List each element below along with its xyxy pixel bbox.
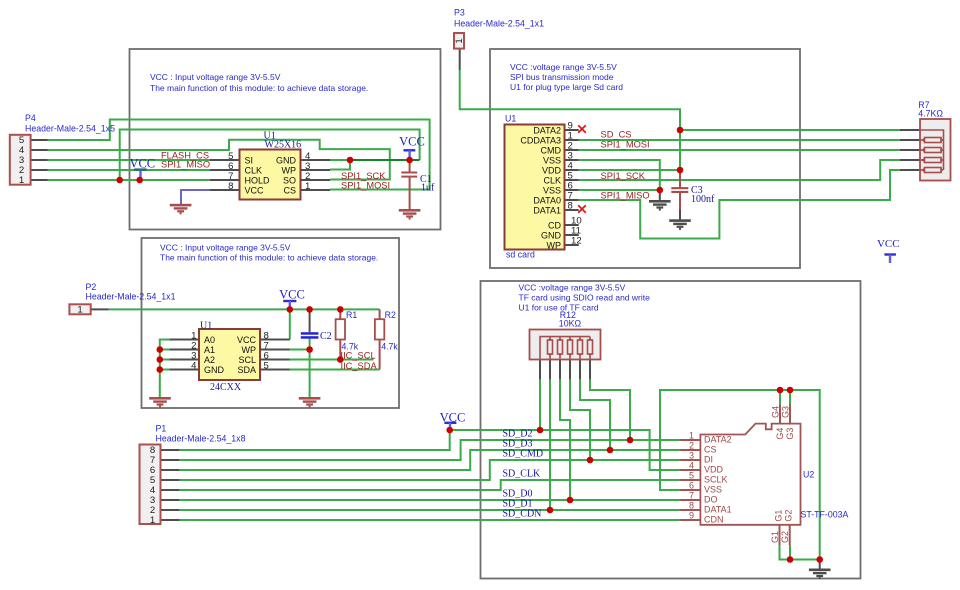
svg-text:1uf: 1uf [421,183,435,194]
svg-text:G3: G3 [781,406,791,418]
svg-text:SCLK: SCLK [704,475,728,485]
svg-text:7: 7 [689,491,694,501]
svg-text:1: 1 [150,515,155,526]
svg-text:CLK: CLK [543,175,561,185]
svg-text:VCC: VCC [237,335,257,345]
svg-text:VCC : Input voltage range 3V-5: VCC : Input voltage range 3V-5.5V [150,72,281,82]
svg-text:The main function of this modu: The main function of this module: to ach… [150,83,368,93]
svg-text:A1: A1 [204,345,215,355]
svg-text:10KΩ: 10KΩ [559,319,582,329]
svg-text:VCC: VCC [245,185,265,195]
svg-text:The main function of this modu: The main function of this module: to ach… [160,253,378,263]
svg-text:1: 1 [77,305,82,316]
svg-text:WP: WP [282,165,297,175]
svg-text:G2: G2 [784,510,794,522]
svg-text:VCC: VCC [877,238,900,250]
svg-text:SPI bus transmission mode: SPI bus transmission mode [510,72,614,82]
svg-text:CDN: CDN [704,515,724,525]
svg-text:R1: R1 [346,310,357,320]
svg-text:G1: G1 [770,531,780,543]
svg-text:CMD: CMD [541,145,562,155]
svg-text:GND: GND [276,155,297,165]
svg-text:24CXX: 24CXX [210,382,242,393]
svg-text:SPI1_MOSI: SPI1_MOSI [601,140,650,150]
svg-text:G2: G2 [780,531,790,543]
svg-text:SD_CDN: SD_CDN [503,508,542,519]
svg-text:G4: G4 [771,406,781,418]
svg-text:DI: DI [704,455,713,465]
svg-text:DATA0: DATA0 [533,195,561,205]
svg-text:G4: G4 [775,428,785,440]
svg-text:P1: P1 [156,424,167,434]
svg-text:WP: WP [242,345,257,355]
svg-text:A2: A2 [204,355,215,365]
svg-text:1: 1 [305,181,310,192]
svg-text:G3: G3 [785,428,795,440]
svg-text:VDD: VDD [704,465,724,475]
svg-text:VSS: VSS [704,485,722,495]
svg-text:P4: P4 [25,113,36,123]
svg-text:VCC :voltage range 3V-5.5V: VCC :voltage range 3V-5.5V [519,283,626,293]
svg-text:DATA1: DATA1 [704,505,732,515]
svg-text:WP: WP [547,240,562,250]
svg-text:U2: U2 [803,470,814,480]
svg-text:4.7k: 4.7k [381,342,398,352]
svg-text:6: 6 [689,481,694,491]
svg-text:8: 8 [689,501,694,511]
svg-text:1: 1 [689,431,694,441]
svg-text:W25X16: W25X16 [265,140,302,151]
svg-text:VCC: VCC [399,135,425,149]
svg-text:HOLD: HOLD [245,175,271,185]
svg-text:CDDATA3: CDDATA3 [520,135,561,145]
svg-text:U1: U1 [200,321,212,332]
svg-text:P3: P3 [454,8,465,18]
svg-text:CLK: CLK [245,165,263,175]
svg-text:SPI1_SCK: SPI1_SCK [601,171,646,181]
svg-text:8: 8 [228,181,233,192]
svg-text:U1 for use of TF card: U1 for use of TF card [519,303,599,313]
svg-text:GND: GND [204,365,225,375]
svg-text:CS: CS [283,185,296,195]
svg-text:100nf: 100nf [691,194,715,205]
svg-text:3: 3 [689,451,694,461]
svg-text:IIC_SCL: IIC_SCL [341,351,376,361]
svg-text:VCC: VCC [279,288,305,302]
svg-text:G1: G1 [774,510,784,522]
svg-text:4: 4 [191,361,197,372]
svg-text:12: 12 [571,236,582,247]
svg-text:VDD: VDD [542,165,562,175]
svg-text:VCC :voltage range 3V-5.5V: VCC :voltage range 3V-5.5V [510,62,617,72]
svg-text:U1: U1 [505,114,516,124]
svg-text:1: 1 [19,175,24,186]
svg-text:SPI1_MISO: SPI1_MISO [601,191,650,201]
svg-text:VCC: VCC [440,410,466,424]
svg-text:SO: SO [283,175,296,185]
svg-text:4.7KΩ: 4.7KΩ [918,109,943,119]
svg-text:SD_CS: SD_CS [601,130,632,140]
svg-text:SPI1_MISO: SPI1_MISO [161,160,210,170]
svg-text:sd card: sd card [506,250,535,260]
svg-text:Header-Male-2.54_1x5: Header-Male-2.54_1x5 [25,124,115,134]
svg-text:CD: CD [548,220,561,230]
svg-text:SD_CMD: SD_CMD [503,448,544,459]
svg-text:1: 1 [454,38,465,43]
svg-text:P2: P2 [86,282,97,292]
svg-text:4: 4 [689,461,694,471]
svg-text:DO: DO [704,495,718,505]
svg-text:Header-Male-2.54_1x1: Header-Male-2.54_1x1 [454,19,544,29]
svg-text:TF card using SDIO read and wr: TF card using SDIO read and write [519,293,651,303]
svg-text:IIC_SDA: IIC_SDA [341,361,378,371]
svg-text:U1 for plug type large Sd card: U1 for plug type large Sd card [510,82,623,92]
svg-text:8: 8 [568,201,573,212]
svg-text:ST-TF-003A: ST-TF-003A [801,510,849,520]
svg-text:A0: A0 [204,335,215,345]
svg-text:5: 5 [689,471,694,481]
svg-text:SI: SI [245,155,254,165]
svg-text:SDA: SDA [237,365,256,375]
svg-text:DATA2: DATA2 [704,435,732,445]
svg-text:SPI1_MOSI: SPI1_MOSI [341,181,390,191]
svg-text:5: 5 [264,361,269,372]
svg-text:SD_CLK: SD_CLK [503,468,542,479]
svg-text:VCC : Input voltage range 3V-5: VCC : Input voltage range 3V-5.5V [160,243,291,253]
svg-text:R2: R2 [385,310,396,320]
svg-text:VSS: VSS [543,185,561,195]
svg-text:DATA2: DATA2 [533,125,561,135]
svg-text:Header-Male-2.54_1x8: Header-Male-2.54_1x8 [156,434,246,444]
svg-text:GND: GND [541,230,562,240]
svg-text:SCL: SCL [238,355,256,365]
svg-text:CS: CS [704,445,717,455]
svg-text:VSS: VSS [543,155,561,165]
svg-text:2: 2 [689,441,694,451]
svg-text:SPI1_SCK: SPI1_SCK [341,171,386,181]
svg-text:9: 9 [689,511,694,521]
svg-text:VCC: VCC [129,156,155,170]
svg-text:C2: C2 [320,331,332,342]
svg-text:Header-Male-2.54_1x1: Header-Male-2.54_1x1 [86,292,176,302]
svg-text:DATA1: DATA1 [533,205,561,215]
